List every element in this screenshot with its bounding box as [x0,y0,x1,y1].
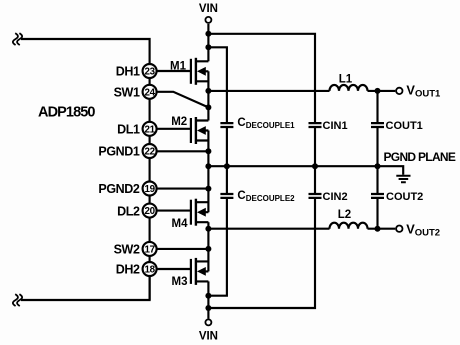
wire: top VIN rail to CIN1 [208,34,315,122]
wire: PGND1 lead from pin 22 [157,150,209,152]
node: SW2 pin junction [205,246,211,252]
wire: gate lead M4 from pin 20 [157,210,190,212]
pin PGND1 circle 22 [143,144,157,158]
svg-text:M4: M4 [172,218,189,230]
wire: SW1 lead diagonal from pin 24 to switch node [157,92,209,108]
wire: pin column segments [149,78,151,300]
svg-text:CIN1: CIN1 [323,120,348,132]
inductor L2 [330,223,368,229]
svg-text:L1: L1 [339,73,353,85]
wire: SW2 lead from pin 17 [157,248,209,250]
svg-text:VIN: VIN [199,330,218,342]
wire: CDECOUPLE1 bottom to PGND line [226,128,228,166]
node: VIN decouple jog junction [205,44,211,50]
capacitor CIN2 [309,194,322,198]
wire: VIN jog to CDECOUPLE1 [208,47,227,122]
node: CDECOUPLE2 VIN jog junction [205,293,211,299]
svg-text:L2: L2 [338,209,351,221]
break symbol (top-left squiggle) [13,33,22,45]
svg-text:24: 24 [144,87,155,98]
svg-text:CDECOUPLE2: CDECOUPLE2 [237,190,295,203]
VIN top terminal [205,17,211,23]
wire: gate lead M2 from pin 21 [157,128,190,130]
svg-text:VIN: VIN [199,3,218,15]
wire: trunk M2 source to M4 source (PGND) [207,131,209,213]
node: PGND1 junction [205,148,211,154]
capacitor COUT2 [371,194,384,198]
svg-text:22: 22 [144,147,155,158]
pin SW1 circle 24 [143,85,157,99]
svg-text:PGND1: PGND1 [98,145,140,159]
capacitor CDECOUPLE1 [220,123,233,127]
transistor M1 [191,58,209,85]
wire: CIN1 bottom to PGND line [314,128,316,166]
svg-text:M2: M2 [171,116,187,128]
wire: switch node 1 to L1 [208,90,329,92]
pin DL2 circle 20 [143,204,157,218]
svg-text:DH1: DH1 [116,65,140,79]
svg-text:DL1: DL1 [117,123,140,137]
svg-text:ADP1850: ADP1850 [38,105,95,121]
wire: L1 to VOUT1 [368,90,396,92]
wire: PGND2 lead from pin 19 [157,188,209,190]
svg-text:PGND2: PGND2 [98,182,140,196]
svg-text:SW2: SW2 [114,243,140,257]
svg-text:VOUT2: VOUT2 [406,221,440,238]
svg-text:17: 17 [144,244,155,255]
wire: top-left input wire to DH1 column [21,39,150,64]
node: trunk PGND line junction [205,163,211,169]
capacitor CDECOUPLE2 [220,194,233,198]
ground symbol [396,176,410,182]
wire: CDECOUPLE2 line PGND to VIN jog [208,166,227,296]
svg-text:DL2: DL2 [117,204,140,218]
wire: gate lead M1 from pin 23 [157,70,190,72]
node: CDECOUPLE1 PGND junction [224,163,230,169]
svg-text:18: 18 [144,265,155,276]
svg-text:23: 23 [144,67,155,78]
svg-text:SW1: SW1 [114,86,140,100]
node: COUT PGND junction [375,163,381,169]
svg-text:19: 19 [144,184,155,195]
wire: COUT2 line PGND to VOUT2 [376,166,378,229]
svg-text:PGND PLANE: PGND PLANE [384,150,456,164]
node: SW1 to L1 junction [205,88,211,94]
VOUT2 terminal [396,226,402,232]
VIN bottom terminal [205,319,211,325]
transistor M2 [191,117,209,144]
svg-text:COUT1: COUT1 [386,120,423,132]
wire: PGND plane stub to ground [378,166,404,175]
node: VIN bottom rail junction [205,305,211,311]
node: SW1 diagonal junction [205,104,211,110]
wire: bottom-left input wire from DH2 column [21,276,150,300]
wire: main trunk segment VIN to M1 drain [207,24,209,62]
transistor M3 [191,258,209,285]
break symbol (bottom-left squiggle) [13,294,22,306]
wire: trunk M1 source to M2 drain (switch node 1) [207,71,209,120]
transistor M4 [191,199,209,226]
svg-text:M3: M3 [172,276,188,288]
node: VIN top rail junction [205,31,211,37]
capacitor COUT1 [371,123,384,127]
svg-text:COUT2: COUT2 [386,191,423,203]
wire: gate lead M3 from pin 18 [157,268,190,270]
wire: CIN2 line PGND to bottom VIN rail [208,166,315,308]
wire: trunk M3 drain to VIN bottom [207,281,209,318]
svg-text:20: 20 [144,206,155,217]
svg-text:21: 21 [144,124,155,135]
inductor L1 [330,85,368,91]
svg-text:CIN2: CIN2 [323,191,348,203]
node: VOUT1 junction [375,88,381,94]
wire: trunk M4 drain to M3 source (switch node 2) [207,222,209,271]
pin DH1 circle 23 [143,64,157,78]
wire: L2 to VOUT2 [368,228,396,230]
wire: switch node 2 to L2 [208,228,329,230]
node: SW2 to L2 junction [205,226,211,232]
wire: COUT1 line VOUT1 to PGND [376,91,378,166]
pin SW2 circle 17 [143,242,157,256]
svg-text:M1: M1 [170,61,187,73]
pin DH2 circle 18 [143,262,157,276]
VOUT1 terminal [396,88,402,94]
node: CIN PGND junction [312,163,318,169]
pin DL1 circle 21 [143,122,157,136]
svg-text:CDECOUPLE1: CDECOUPLE1 [237,117,295,130]
node: VOUT2 junction [375,226,381,232]
pin PGND2 circle 19 [143,182,157,196]
wire: mid PGND line [208,165,377,167]
node: PGND2 junction [205,186,211,192]
svg-text:DH2: DH2 [116,263,140,277]
svg-text:VOUT1: VOUT1 [406,83,441,100]
capacitor CIN1 [309,123,322,127]
